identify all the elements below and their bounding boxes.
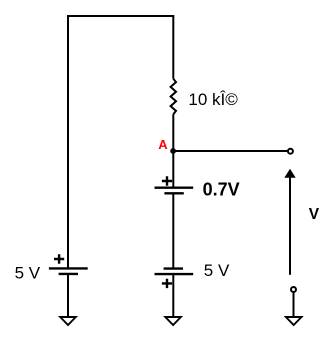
battery B3 plus sign — [54, 254, 64, 263]
wire: node A to right output terminal — [174, 150, 287, 152]
terminal: open circle bottom right — [291, 287, 296, 292]
battery B2 plus sign — [162, 279, 172, 288]
svg-text:0.7V: 0.7V — [203, 179, 240, 199]
wire: resistor bottom down through node A to battery B1 — [172, 114, 174, 188]
wire: battery B3 to left ground — [67, 274, 69, 317]
battery B3 5V long plate — [49, 267, 88, 269]
battery B2 5V long plate — [155, 273, 194, 275]
resistor R1 — [171, 79, 176, 114]
ground symbol left — [60, 317, 76, 325]
terminal: open circle top right — [288, 149, 293, 154]
battery B1 0.7V long plate — [155, 186, 194, 188]
battery B3 short plate — [59, 273, 78, 275]
node A junction dot — [170, 148, 176, 154]
voltage arrow head (pointing up) — [284, 169, 295, 178]
wire: battery B2 to middle ground — [172, 274, 174, 317]
svg-text:5 V: 5 V — [15, 264, 41, 283]
battery B1 plus sign — [162, 176, 172, 185]
wire: bottom terminal to right ground — [293, 293, 295, 317]
svg-text:5 V: 5 V — [204, 261, 230, 280]
battery B1 0.7V short plate — [164, 192, 183, 194]
wire: top run from left branch over to middle branch — [68, 16, 173, 268]
voltage arrow shaft — [289, 177, 291, 275]
battery B2 short plate — [164, 267, 183, 269]
ground symbol middle — [165, 317, 181, 325]
wire: battery B1 to battery B2 — [172, 193, 174, 268]
svg-text:10 kÎ©: 10 kÎ© — [188, 90, 238, 109]
ground symbol right — [286, 317, 302, 325]
svg-text:A: A — [158, 137, 168, 152]
svg-text:V: V — [309, 206, 320, 223]
